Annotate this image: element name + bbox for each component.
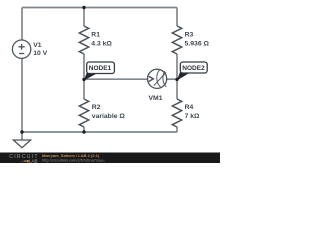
svg-text:http:/​/circuitlab.com/c/57cbn: http:/​/circuitlab.com/c/57cbna7ssuu: [42, 158, 104, 163]
wire middle branch lower: [83, 127, 85, 132]
svg-text:R1: R1: [91, 31, 100, 38]
wire voltmeter left: [84, 78, 148, 80]
wire ground stub: [21, 132, 23, 140]
watermark bar: [0, 153, 220, 164]
resistor R1: [79, 26, 112, 54]
wire top: [22, 7, 177, 9]
junction dot node2: [175, 78, 178, 81]
svg-text:variable Ω: variable Ω: [92, 113, 126, 120]
svg-text:NODE1: NODE1: [89, 65, 112, 72]
junction dot node1: [82, 78, 85, 81]
wire voltmeter right: [167, 78, 177, 80]
voltage source V1: [12, 40, 47, 58]
wire left lower: [21, 58, 23, 132]
svg-text:R2: R2: [92, 104, 101, 111]
wire right branch mid: [176, 54, 178, 99]
wire right branch lower: [176, 127, 178, 132]
voltmeter VM1: [148, 69, 167, 102]
wire middle branch upper: [83, 8, 85, 27]
wire bottom: [22, 131, 177, 133]
resistor R4: [172, 99, 200, 127]
svg-text:5.936 Ω: 5.936 Ω: [185, 40, 210, 47]
svg-text:VM1: VM1: [149, 95, 163, 102]
svg-text:NODE2: NODE2: [182, 65, 205, 72]
svg-text:R3: R3: [185, 31, 194, 38]
node NODE1 flag: [84, 62, 115, 81]
wire right branch upper: [176, 8, 178, 27]
wire middle branch mid: [83, 54, 85, 99]
svg-text:V1: V1: [33, 42, 42, 49]
wire left upper: [21, 8, 23, 41]
svg-text:7 kΩ: 7 kΩ: [185, 113, 200, 120]
svg-text:4.3 kΩ: 4.3 kΩ: [91, 40, 112, 47]
resistor R3: [172, 26, 209, 54]
svg-text:R4: R4: [185, 104, 194, 111]
resistor R2: [79, 99, 125, 127]
junction dot top: [82, 6, 85, 9]
svg-text:10 V: 10 V: [33, 50, 47, 57]
junction dot bottom left: [20, 130, 23, 133]
node NODE2 flag: [177, 62, 207, 81]
junction dot bottom middle: [82, 130, 85, 133]
ground: [13, 140, 30, 148]
svg-text:−≡■LAB: −≡■LAB: [21, 158, 38, 163]
